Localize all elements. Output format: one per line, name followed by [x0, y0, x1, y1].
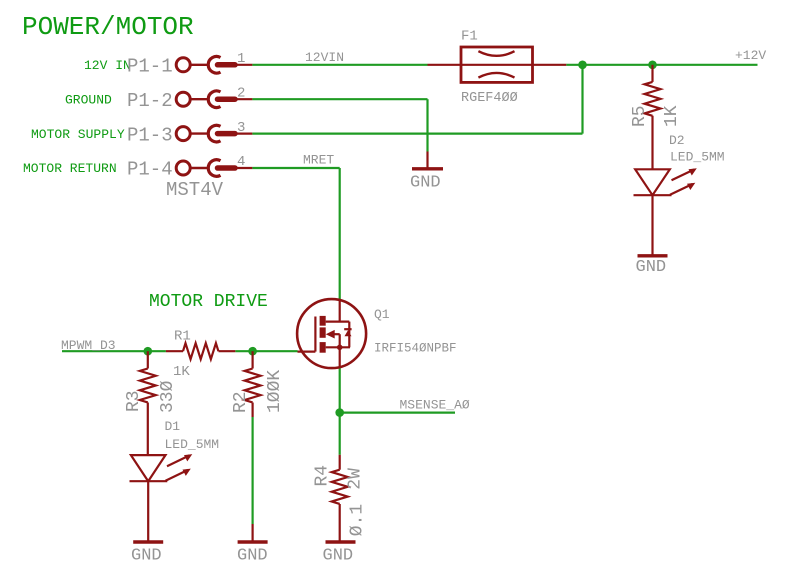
svg-text:2: 2: [237, 85, 245, 101]
svg-text:RGEF4ØØ: RGEF4ØØ: [461, 91, 518, 106]
svg-text:MOTOR DRIVE: MOTOR DRIVE: [149, 292, 268, 312]
ground symbol under D1: [133, 540, 163, 543]
connector P1 pin 4 symbol: [176, 160, 252, 177]
wire R1 right stub to node B: [235, 350, 252, 352]
junction node fuse/+12V/pin3: [578, 61, 587, 70]
ground symbol under D2: [638, 254, 668, 257]
wire pin2 down to GND symbol: [426, 99, 428, 151]
svg-text:4: 4: [237, 154, 245, 170]
svg-text:R4: R4: [313, 465, 333, 487]
svg-text:IRFI54ØNPBF: IRFI54ØNPBF: [374, 342, 457, 356]
wire MRET down to Q1 drain: [339, 168, 341, 300]
svg-text:GND: GND: [636, 258, 667, 277]
svg-text:+12V: +12V: [735, 48, 766, 63]
wire fuse to +12V rail: [566, 64, 757, 66]
svg-text:R1: R1: [174, 329, 191, 345]
junction node R1/R2/Q1 gate: [248, 347, 257, 356]
svg-text:12V IN: 12V IN: [84, 58, 131, 73]
LED D1: [130, 454, 193, 542]
resistor R1: [166, 343, 235, 359]
svg-text:1ØØK: 1ØØK: [265, 370, 285, 413]
wire MPWM_D3 to R1/R3 node: [62, 350, 166, 352]
svg-text:Ø.1: Ø.1: [347, 504, 367, 536]
svg-text:33Ø: 33Ø: [158, 380, 178, 413]
junction node MSENSE/R4: [335, 408, 344, 417]
svg-text:F1: F1: [461, 29, 478, 45]
svg-text:LED_5MM: LED_5MM: [165, 437, 220, 452]
svg-text:MPWM_D3: MPWM_D3: [61, 338, 116, 353]
fuse F1: [428, 47, 567, 82]
svg-text:Q1: Q1: [374, 307, 390, 322]
wire R2 bottom to GND stub: [252, 417, 254, 524]
svg-text:MST4V: MST4V: [166, 179, 224, 201]
resistor R3: [140, 351, 156, 455]
wire pin2 (GROUND) horizontal: [252, 98, 427, 100]
transistor Q1 (N-MOSFET): [297, 299, 366, 368]
svg-text:MSENSE_AØ: MSENSE_AØ: [400, 397, 470, 412]
svg-text:GND: GND: [323, 547, 354, 566]
svg-text:MRET: MRET: [303, 153, 334, 168]
svg-text:D2: D2: [669, 133, 685, 148]
svg-text:POWER/MOTOR: POWER/MOTOR: [22, 12, 194, 42]
svg-text:P1-4: P1-4: [127, 159, 173, 181]
svg-text:2W: 2W: [346, 468, 366, 490]
resistor R4: [326, 455, 356, 542]
svg-text:1K: 1K: [173, 364, 190, 380]
connector P1 pin 3 symbol: [176, 125, 252, 142]
svg-text:P1-3: P1-3: [127, 124, 173, 146]
svg-text:D1: D1: [165, 419, 181, 434]
junction node +12V/R5: [648, 61, 657, 70]
resistor R2: [238, 351, 268, 542]
wire gate node to Q1: [253, 350, 298, 352]
svg-text:R3: R3: [124, 390, 144, 412]
svg-text:GROUND: GROUND: [65, 92, 112, 107]
resistor R5: [645, 65, 661, 170]
svg-text:MOTOR RETURN: MOTOR RETURN: [23, 161, 117, 176]
svg-text:P1-2: P1-2: [127, 90, 173, 112]
svg-text:LED_5MM: LED_5MM: [670, 150, 725, 165]
ground symbol under fuse (net GND): [412, 152, 443, 169]
svg-text:12VIN: 12VIN: [305, 50, 344, 65]
svg-text:MOTOR SUPPLY: MOTOR SUPPLY: [31, 127, 125, 142]
svg-text:1: 1: [237, 51, 245, 67]
wire MSENSE_A0: [340, 412, 455, 414]
junction node MPWM/R1/R3: [144, 347, 153, 356]
wire pin1 to fuse (net 12VIN): [252, 64, 427, 66]
svg-text:GND: GND: [131, 547, 162, 566]
svg-text:GND: GND: [237, 547, 268, 566]
svg-text:GND: GND: [410, 174, 441, 193]
wire pin3 (MOTOR SUPPLY) to +12V vertical: [252, 133, 582, 135]
svg-text:R5: R5: [630, 105, 650, 127]
svg-text:R2: R2: [231, 391, 251, 413]
connector P1 pin 2 symbol: [176, 91, 252, 108]
svg-text:1K: 1K: [662, 105, 682, 127]
connector P1 pin 1 symbol: [176, 57, 252, 74]
wire Q1 source down to sense node: [339, 368, 341, 413]
LED D2: [634, 168, 697, 256]
svg-text:3: 3: [237, 120, 245, 136]
svg-text:P1-1: P1-1: [127, 56, 173, 78]
wire +12V rail down to pin3 row: [581, 65, 583, 134]
wire sense node down to R4: [339, 413, 341, 455]
wire pin4 (MRET) horizontal: [252, 167, 339, 169]
